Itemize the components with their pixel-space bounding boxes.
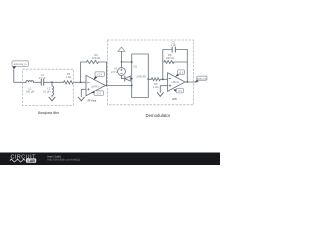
svg-text:1 kΩ: 1 kΩ bbox=[153, 85, 158, 89]
svg-text:+5 V: +5 V bbox=[97, 73, 103, 76]
supply arrow flag bbox=[118, 47, 125, 51]
wire U2 output bbox=[185, 81, 197, 83]
svg-text:http://circuitlab.com/ce8q2p: http://circuitlab.com/ce8q2p bbox=[48, 158, 81, 162]
node U2 - input junction bbox=[162, 78, 164, 80]
svg-text:100 µH: 100 µH bbox=[26, 89, 35, 93]
svg-text:D1: D1 bbox=[134, 64, 138, 68]
node rectangle taps bbox=[131, 61, 133, 63]
resistor R5 bbox=[148, 78, 160, 89]
wire feedback U2 left bbox=[163, 50, 172, 80]
footer bar bbox=[0, 153, 220, 166]
svg-text:1 kΩ: 1 kΩ bbox=[66, 75, 71, 79]
svg-text:RF Amp: RF Amp bbox=[88, 100, 97, 103]
wire L1 to C1 bbox=[34, 81, 42, 83]
inductor L2 shunt bbox=[43, 82, 53, 97]
wire U1 output to demodulator bbox=[105, 85, 131, 87]
bandpass filter dashed box bbox=[23, 69, 74, 105]
logo LAB badge bbox=[26, 158, 36, 162]
op-amp U1 bbox=[86, 75, 105, 96]
svg-text:audio_out: audio_out bbox=[197, 77, 207, 80]
resistor R1 bbox=[64, 72, 74, 84]
node B junction bbox=[121, 61, 123, 63]
op-amp U2 V- flag bbox=[174, 88, 184, 93]
wire V1 to diode D1 bbox=[122, 75, 125, 78]
svg-text:2.5 V: 2.5 V bbox=[111, 70, 117, 74]
ground under U2 bbox=[157, 93, 163, 97]
wire node B to rectangle bbox=[122, 61, 132, 63]
op-amp U1 V+ flag bbox=[93, 72, 104, 81]
node A junction bbox=[51, 81, 53, 83]
wire R1 to op-amp U1 bbox=[74, 81, 87, 83]
svg-text:-5 V: -5 V bbox=[96, 92, 101, 95]
diode D1 bbox=[125, 64, 146, 81]
node audio out flag bbox=[195, 76, 208, 82]
svg-text:100 kΩ: 100 kΩ bbox=[166, 56, 174, 60]
logo resistor zigzag bbox=[10, 159, 26, 162]
capacitor C1 bbox=[39, 73, 46, 85]
wire U1 + input to ground bbox=[81, 89, 86, 97]
resistor R2 feedback bbox=[87, 53, 101, 64]
svg-text:10 µH: 10 µH bbox=[43, 89, 50, 93]
op-amp U1 V- flag bbox=[91, 91, 103, 96]
op-amp U2 V+ flag bbox=[175, 70, 184, 77]
ground under U1 bbox=[78, 97, 84, 101]
wire feedback U1 left bbox=[81, 62, 87, 82]
node feedback junction bbox=[80, 81, 82, 83]
capacitor C2 feedback bbox=[171, 40, 188, 52]
wire antenna to L1 bbox=[14, 69, 26, 83]
svg-text:100 kΩ: 100 kΩ bbox=[92, 56, 100, 60]
svg-text:LPF: LPF bbox=[172, 97, 177, 101]
inductor L1 bbox=[26, 81, 35, 94]
wire demod rectangle bbox=[132, 54, 149, 98]
resistor R6 feedback bbox=[163, 53, 188, 64]
wire U2 + input to ground bbox=[160, 86, 167, 93]
wire feedback U2 right bbox=[186, 50, 188, 83]
svg-text:LM741: LM741 bbox=[91, 86, 99, 89]
voltage source V1 bbox=[111, 62, 125, 75]
node U2 output junction bbox=[186, 81, 188, 83]
svg-text:LAB: LAB bbox=[28, 159, 36, 163]
wire feedback U1 right bbox=[99, 62, 107, 86]
wire C1 to node A bbox=[44, 81, 64, 83]
svg-text:LM741: LM741 bbox=[172, 81, 180, 84]
svg-text:1 µF: 1 µF bbox=[171, 43, 177, 47]
svg-text:-5 V: -5 V bbox=[178, 90, 183, 93]
node antenna input flag bbox=[12, 61, 28, 69]
svg-text:1N4148: 1N4148 bbox=[136, 74, 146, 78]
ground under L2 bbox=[49, 97, 55, 101]
node U1 output junction bbox=[106, 85, 108, 87]
svg-text:Demodulator: Demodulator bbox=[146, 113, 171, 118]
svg-text:antenna_in: antenna_in bbox=[14, 62, 27, 66]
wire R5 to op-amp U2 bbox=[160, 78, 167, 80]
svg-text:Bandpass filter: Bandpass filter bbox=[38, 111, 60, 115]
demodulator dashed box bbox=[108, 40, 194, 105]
wire arrow to node B bbox=[121, 52, 123, 62]
svg-text:47 pF: 47 pF bbox=[39, 76, 46, 80]
op-amp U2 bbox=[168, 73, 185, 92]
svg-text:+5 V: +5 V bbox=[179, 71, 184, 74]
